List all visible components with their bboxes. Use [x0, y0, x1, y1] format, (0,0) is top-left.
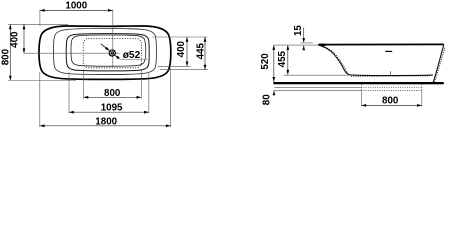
- extension line rim top (y=42.9) for dim 15: [301, 42, 314, 44]
- hidden inner wall right (dotted): [435, 47, 445, 82]
- svg-text:520: 520: [260, 53, 271, 70]
- drain centerline vertical: [112, 10, 114, 67]
- second (rim inner) outline: [54, 29, 157, 75]
- extension line rim level (y=45.1): [274, 44, 319, 46]
- dim 1095 (bottom): [69, 111, 149, 113]
- dim 15: [303, 28, 305, 39]
- extension line for dim 800 bottom (left x=83.5): [83, 69, 85, 99]
- svg-text:1000: 1000: [65, 0, 87, 11]
- line under floor (A) solid part: [274, 86, 361, 88]
- dim 520: [273, 45, 275, 82]
- hidden inner bottom (dotted): [351, 75, 430, 78]
- right side extension line (top y=37): [153, 36, 208, 38]
- right end wall: [433, 45, 444, 82]
- outer tub outline: [39, 26, 171, 79]
- bottom extension line y=80.5: [8, 80, 76, 82]
- base hidden verticals (dotted): [360, 84, 362, 90]
- rim top line (flat): [319, 43, 444, 45]
- top extension line y=24.4: [8, 23, 68, 25]
- drain leader line: [101, 44, 108, 50]
- overflow mark: [385, 50, 392, 52]
- rim tip blob: [319, 44, 325, 46]
- dim 400 (left vertical): [23, 24, 25, 53]
- svg-text:80: 80: [261, 94, 272, 105]
- basin inner edge outline: [71, 35, 146, 66]
- hidden inner wall left (dotted): [323, 46, 351, 75]
- dim 400 (right vertical): [186, 37, 188, 66]
- leader underline: [120, 58, 148, 60]
- svg-text:400: 400: [176, 40, 187, 57]
- dim 800 (left vertical): [9, 24, 11, 80]
- extension line for dim 1800 (left x=39.8): [39, 72, 41, 127]
- floor bar: [273, 82, 443, 84]
- hidden base footprint (dotted): [83, 39, 141, 68]
- svg-text:800: 800: [1, 48, 12, 65]
- extension lines for dim 800 (side): [360, 91, 362, 106]
- extension line for 455 bottom: [284, 74, 350, 76]
- right side extension line (y=66.35): [158, 65, 191, 67]
- extension line for dim 800 bottom (right x=141.3): [140, 69, 142, 99]
- extension line for dim 1800 (right x=170.7): [170, 68, 172, 127]
- drain mark (side view): [389, 71, 391, 76]
- tub body outline: left underside, bottom, right wall: [321, 46, 433, 76]
- svg-text:445: 445: [196, 42, 207, 59]
- svg-text:800: 800: [104, 88, 121, 99]
- dim 455: [287, 45, 289, 75]
- basin opening outline: [66, 34, 149, 71]
- extension line for dim 1095 (left x=68.8): [68, 72, 70, 113]
- extension line for dim 1095 (right x=148.8): [148, 72, 150, 113]
- base bottom line (B) solid part: [274, 89, 361, 91]
- svg-text:1800: 1800: [95, 116, 117, 127]
- line under floor (A) dotted part: [361, 86, 423, 88]
- drain centerline horizontal: [24, 52, 120, 54]
- drain outlet symbol: [109, 50, 115, 56]
- svg-text:1095: 1095: [101, 103, 123, 114]
- drain leader arrows: [105, 47, 110, 52]
- svg-text:400: 400: [10, 31, 21, 48]
- base bottom line (B) dotted part: [361, 89, 422, 91]
- svg-text:15: 15: [293, 25, 304, 36]
- right side extension line (y=69.6): [160, 69, 208, 71]
- svg-text:800: 800: [382, 96, 399, 107]
- dim 800 (bottom): [84, 96, 142, 98]
- dim 1000 (top): [39, 10, 41, 26]
- svg-text:455: 455: [277, 50, 288, 67]
- dim 1800 (bottom): [40, 125, 171, 127]
- dim 800 (side bottom): [361, 104, 421, 106]
- dim 80: [273, 91, 276, 96]
- dim 445 (right vertical): [204, 37, 206, 70]
